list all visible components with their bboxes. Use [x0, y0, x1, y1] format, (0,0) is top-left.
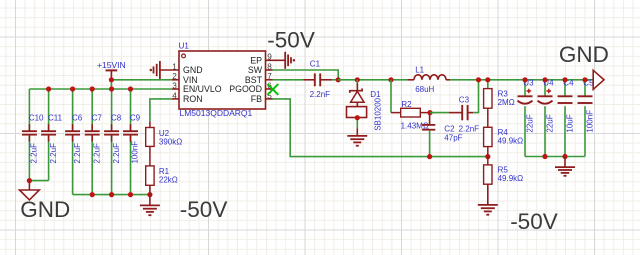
- node C10/C11/GND junction: [27, 178, 32, 183]
- svg-text:PGOOD: PGOOD: [229, 84, 262, 94]
- capacitor C9 100nF: [123, 89, 141, 195]
- svg-text:RON: RON: [183, 94, 203, 104]
- svg-text:SB10200: SB10200: [374, 97, 383, 130]
- node R2 branch tap: [388, 77, 393, 82]
- resistor R5 49.9k: [484, 165, 524, 184]
- svg-text:8: 8: [267, 62, 272, 71]
- svg-text:SW: SW: [248, 65, 263, 75]
- ground -50V below R1 (earth symbol): [140, 185, 160, 215]
- svg-text:C10: C10: [29, 114, 44, 123]
- svg-text:R2: R2: [401, 100, 412, 109]
- ground GND (triangle power port): [20, 181, 40, 200]
- svg-text:GND: GND: [20, 197, 70, 222]
- wire R2 to C3: [430, 112, 449, 114]
- wire output rail: [450, 79, 593, 81]
- node C3 rail junction: [476, 77, 481, 82]
- svg-text:LM5013QDDARQ1: LM5013QDDARQ1: [180, 108, 253, 118]
- svg-text:390kΩ: 390kΩ: [159, 138, 182, 147]
- wire U2-R1: [149, 146, 151, 166]
- resistor R2 1.43M: [391, 100, 430, 130]
- U1 pin 6 (PGOOD): [229, 81, 272, 94]
- capacitor C11 2.2uF: [41, 89, 63, 181]
- power port +15VIN: [97, 60, 126, 80]
- svg-text:68uH: 68uH: [415, 85, 434, 94]
- wire VIN row: [111, 79, 172, 81]
- svg-text:D1: D1: [370, 90, 381, 99]
- svg-text:22kΩ: 22kΩ: [159, 176, 178, 185]
- wire C11 to C10 bottom: [29, 180, 48, 182]
- capacitor C10 2.2uF: [21, 89, 44, 181]
- resistor R3 2M: [484, 89, 515, 109]
- svg-text:C2: C2: [444, 125, 455, 134]
- node C2/FB junction: [427, 154, 432, 159]
- svg-text:4: 4: [172, 91, 177, 100]
- svg-text:FB: FB: [251, 94, 262, 104]
- svg-text:49.9kΩ: 49.9kΩ: [498, 137, 524, 146]
- capacitor C1 2.2nF: [303, 60, 332, 99]
- svg-text:100nF: 100nF: [131, 141, 140, 164]
- svg-text:C7: C7: [92, 114, 103, 123]
- svg-text:C8: C8: [111, 114, 122, 123]
- capacitor U3 22uF: [518, 79, 535, 157]
- U1 pin 4 (RON): [172, 91, 203, 104]
- U1 pin 3 (EN/UVLO): [172, 81, 222, 94]
- wire EN/UVLO rail: [29, 88, 172, 90]
- inductor L1 68uH: [407, 65, 450, 94]
- capacitor C4 10uF: [558, 79, 575, 157]
- svg-text:C1: C1: [310, 60, 321, 69]
- U1 pin 1 (GND): [160, 62, 203, 75]
- wire R3 top lead: [487, 80, 489, 89]
- wire VIN-EN tie: [110, 80, 112, 89]
- wire SW jog down: [273, 70, 339, 80]
- node D1 tap: [355, 77, 360, 82]
- U1 pin 5 (FB): [251, 91, 273, 104]
- svg-text:49.9kΩ: 49.9kΩ: [498, 174, 524, 183]
- U1 pin 2 (VIN): [172, 72, 198, 85]
- svg-text:10uF: 10uF: [565, 114, 574, 132]
- svg-text:R3: R3: [498, 89, 509, 98]
- wire RON to divider: [150, 99, 172, 121]
- node D1 anode: [355, 115, 360, 120]
- svg-text:C11: C11: [48, 114, 63, 123]
- svg-text:3: 3: [172, 81, 177, 90]
- capacitor C7 2.2uF: [84, 89, 102, 195]
- node SW/BST cap junction: [336, 77, 341, 82]
- svg-text:22uF: 22uF: [525, 114, 534, 132]
- ground -50V below R5 (earth symbol): [478, 184, 498, 215]
- node caps bottom junctions: [542, 154, 567, 159]
- ground -50V below D1 (earth symbol): [347, 128, 367, 145]
- node EN rail junctions: [46, 77, 133, 91]
- resistor U2 390k: [146, 121, 183, 146]
- U1 pin 9 (EP): [250, 53, 285, 66]
- wire -50V bottom rail (C6..C9 to R1 ground): [73, 194, 150, 196]
- node R3 rail junction: [485, 77, 490, 82]
- svg-text:U1: U1: [179, 42, 190, 51]
- svg-text:2MΩ: 2MΩ: [498, 98, 515, 107]
- svg-text:GND: GND: [559, 42, 609, 67]
- U1 pin 8 (SW): [248, 62, 273, 75]
- wire SW rail: [338, 79, 407, 81]
- node bottom rail junctions: [90, 192, 153, 197]
- svg-text:2: 2: [172, 72, 177, 81]
- svg-text:C6: C6: [72, 114, 83, 123]
- wire BST row: [273, 79, 304, 81]
- IC U1 LM5013QDDARQ1: [179, 51, 266, 109]
- node FB/R4/R5 junction: [485, 154, 490, 159]
- svg-text:2.2nF: 2.2nF: [459, 125, 480, 134]
- svg-text:-50V: -50V: [510, 209, 558, 234]
- wire C3 up to output rail: [473, 80, 478, 113]
- U1 pin 7 (BST): [245, 72, 273, 85]
- svg-text:GND: GND: [183, 65, 203, 75]
- svg-text:22uF: 22uF: [545, 114, 554, 132]
- svg-text:2.2uF: 2.2uF: [49, 143, 58, 164]
- svg-text:9: 9: [267, 53, 272, 62]
- node output rail junctions: [522, 77, 587, 82]
- diode D1 SB10200: [347, 80, 383, 131]
- capacitor U4 22uF: [538, 79, 555, 157]
- svg-text:2.2uF: 2.2uF: [92, 143, 101, 164]
- svg-text:EN/UVLO: EN/UVLO: [183, 84, 222, 94]
- svg-text:EP: EP: [250, 56, 262, 66]
- svg-text:2.2uF: 2.2uF: [73, 143, 82, 164]
- svg-text:2.2uF: 2.2uF: [112, 143, 121, 164]
- svg-text:+15VIN: +15VIN: [97, 60, 126, 70]
- wire C1 to SW node: [332, 79, 338, 81]
- wire R4-R5: [487, 147, 489, 165]
- port GND arrow: [593, 70, 604, 89]
- svg-text:2.2uF: 2.2uF: [30, 143, 39, 164]
- svg-text:L1: L1: [415, 65, 424, 74]
- svg-text:47pF: 47pF: [444, 134, 462, 143]
- capacitor C6 2.2uF: [65, 89, 83, 195]
- svg-text:2.2nF: 2.2nF: [310, 90, 331, 99]
- wire FB net: [273, 99, 488, 157]
- capacitor C2 47pF: [422, 113, 479, 157]
- capacitor C3 2.2nF: [449, 96, 474, 121]
- resistor R1 22k: [146, 166, 178, 185]
- wire R3-R4: [487, 108, 489, 127]
- svg-text:R4: R4: [498, 128, 509, 137]
- svg-text:7: 7: [267, 72, 272, 81]
- capacitor C5 100nF: [578, 79, 595, 157]
- svg-text:-50V: -50V: [180, 197, 228, 222]
- power flag -50V at pin 9 (EP): [285, 52, 295, 69]
- wire caps bottom rail: [525, 156, 585, 158]
- svg-text:100nF: 100nF: [585, 110, 594, 133]
- power flag -50V at pin 1: [150, 61, 160, 79]
- svg-text:C3: C3: [459, 96, 470, 105]
- resistor R4 49.9k: [484, 127, 524, 146]
- svg-text:C9: C9: [130, 114, 141, 123]
- ground -50V below C4 (earth symbol): [555, 157, 575, 176]
- node R2/C2/C3 junction: [427, 110, 432, 115]
- wire R2 branch vertical: [390, 80, 392, 113]
- svg-text:1: 1: [172, 62, 177, 71]
- svg-text:-50V: -50V: [267, 27, 315, 52]
- svg-text:R5: R5: [498, 165, 509, 174]
- no-connect X on PGOOD: [268, 84, 279, 95]
- capacitor C8 2.2uF: [104, 89, 122, 195]
